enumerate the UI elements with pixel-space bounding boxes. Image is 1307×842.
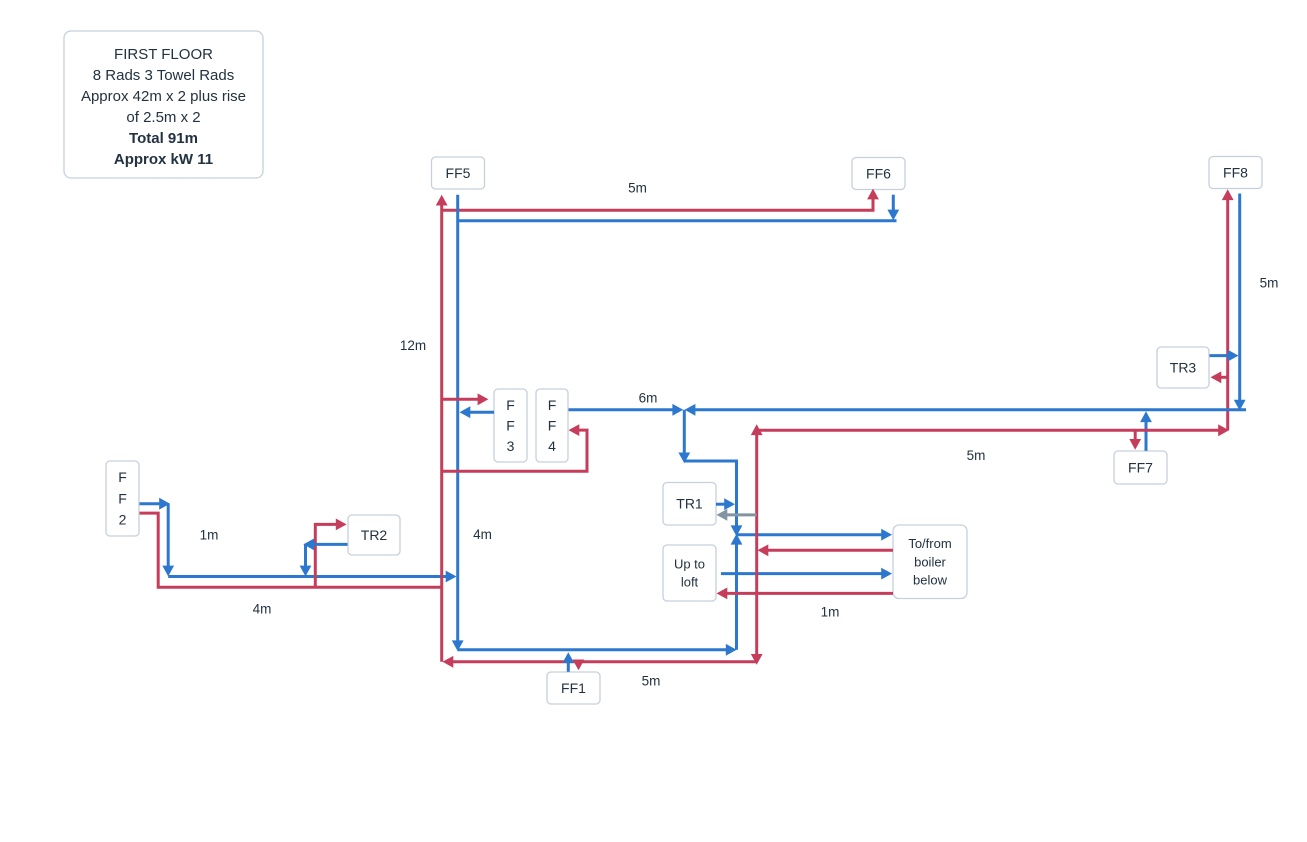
return pipe from TR2 xyxy=(303,539,347,551)
gray pipe from riser to TR1 xyxy=(717,509,757,521)
flow pipe up to loft xyxy=(721,568,892,580)
svg-text:F: F xyxy=(548,397,557,413)
return pipe drop from FF6 xyxy=(887,195,899,221)
flow pipe from loft down to Up-to-loft xyxy=(717,588,894,600)
flow pipe loop to FF4 xyxy=(442,424,587,471)
svg-text:FF7: FF7 xyxy=(1128,459,1153,475)
return pipe from FF7 xyxy=(1140,411,1152,451)
svg-text:8 Rads 3 Towel Rads: 8 Rads 3 Towel Rads xyxy=(93,67,234,84)
flow pipe riser (red, bottom run up to FF5) xyxy=(436,195,448,662)
flow pipe riser to FF6 (5m run) xyxy=(442,189,879,211)
svg-text:5m: 5m xyxy=(967,448,986,463)
svg-text:2: 2 xyxy=(119,512,127,528)
svg-text:4: 4 xyxy=(548,438,556,454)
flow pipe mid riser (boiler leg) xyxy=(751,424,763,665)
return pipe FF3 into riser xyxy=(460,406,495,418)
svg-text:TR2: TR2 xyxy=(361,527,388,543)
return pipe to boiler below xyxy=(737,529,893,541)
svg-text:boiler: boiler xyxy=(914,554,946,569)
svg-text:F: F xyxy=(548,417,557,433)
radiator FF6 xyxy=(852,158,905,190)
svg-text:Up to: Up to xyxy=(674,557,705,572)
flow pipe right riser to FF8 xyxy=(1222,189,1234,430)
return pipe drop from TR2 xyxy=(300,544,312,576)
flow pipe branch to TR3 xyxy=(1211,371,1228,383)
flow pipe from FF2 to riser xyxy=(140,513,442,587)
return pipe out of FF2 xyxy=(140,498,171,510)
flow pipe drop to FF7 xyxy=(1129,430,1141,450)
radiator FF5 xyxy=(432,157,485,189)
svg-text:5m: 5m xyxy=(628,181,647,196)
svg-text:3: 3 xyxy=(507,438,515,454)
svg-text:F: F xyxy=(506,417,515,433)
svg-text:Approx kW 11: Approx kW 11 xyxy=(114,151,213,168)
radiator FF1 xyxy=(547,672,600,704)
return pipe bottom-left run (4m) xyxy=(168,571,456,583)
towel rad TR1 xyxy=(663,483,716,526)
flow pipe branch to TR2 xyxy=(315,519,346,588)
towel rad TR2 xyxy=(348,515,400,555)
svg-text:TR3: TR3 xyxy=(1170,359,1197,375)
flow pipe bottom run (into riser) xyxy=(443,656,758,668)
svg-text:FF1: FF1 xyxy=(561,680,586,696)
svg-text:4m: 4m xyxy=(253,602,272,617)
svg-text:F: F xyxy=(118,490,127,506)
svg-text:1m: 1m xyxy=(821,605,840,620)
return pipe mid riser lower segment xyxy=(731,534,743,650)
return pipe 6m run right segment xyxy=(685,404,1246,416)
svg-text:5m: 5m xyxy=(642,674,661,689)
svg-text:Total 91m: Total 91m xyxy=(129,130,198,147)
towel rad TR3 xyxy=(1157,347,1209,388)
svg-text:FF6: FF6 xyxy=(866,165,891,181)
svg-text:below: below xyxy=(913,573,948,588)
svg-text:FF8: FF8 xyxy=(1223,164,1248,180)
svg-text:4m: 4m xyxy=(473,527,492,542)
svg-text:Approx 42m x 2 plus rise: Approx 42m x 2 plus rise xyxy=(81,88,246,105)
return pipe drop from FF8 xyxy=(1234,194,1246,411)
flow pipe from boiler below xyxy=(758,544,894,556)
svg-text:TR1: TR1 xyxy=(676,496,703,512)
return pipe from FF1 xyxy=(562,652,574,672)
return pipe connector to mid riser xyxy=(684,461,742,536)
radiator FF2 xyxy=(106,461,139,536)
return pipe top run (FF6 to riser) xyxy=(458,219,897,222)
radiator FF7 xyxy=(1114,451,1167,484)
radiator FF8 xyxy=(1209,157,1262,189)
return pipe drop at 6m junction xyxy=(678,410,690,464)
svg-text:1m: 1m xyxy=(200,528,219,543)
return pipe drop from FF2 xyxy=(162,504,174,577)
info box (first floor summary) xyxy=(64,31,263,178)
flow pipe mid-right run (5m) xyxy=(757,424,1229,436)
node To/from boiler below xyxy=(893,525,967,599)
flow pipe drop to FF1 xyxy=(573,660,585,671)
svg-text:5m: 5m xyxy=(1260,276,1279,291)
return pipe from TR3 xyxy=(1210,350,1239,362)
return pipe bottom run (5m) xyxy=(458,644,737,656)
svg-text:To/from: To/from xyxy=(908,536,951,551)
svg-text:F: F xyxy=(118,469,127,485)
return pipe riser (blue, FF5 down to bottom run) xyxy=(452,195,464,652)
return pipe from TR1 xyxy=(716,498,735,510)
svg-text:FF5: FF5 xyxy=(446,165,471,181)
riser note Up to loft xyxy=(663,545,716,601)
svg-text:12m: 12m xyxy=(400,338,426,353)
return pipe 6m run from FF4 xyxy=(569,404,684,416)
radiator FF3 xyxy=(494,389,527,462)
radiator FF4 xyxy=(536,389,568,462)
flow pipe branch to FF3 xyxy=(442,393,489,405)
svg-text:loft: loft xyxy=(681,575,699,590)
svg-text:of 2.5m x 2: of 2.5m x 2 xyxy=(126,109,200,126)
svg-text:FIRST FLOOR: FIRST FLOOR xyxy=(114,46,213,63)
svg-text:6m: 6m xyxy=(639,391,658,406)
svg-text:F: F xyxy=(506,397,515,413)
